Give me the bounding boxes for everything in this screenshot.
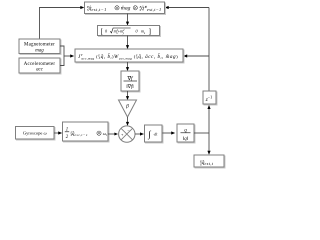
svg-text:‖q‖: ‖q‖	[183, 137, 189, 142]
wire: gyroscope into quaternion rate block B5	[54, 132, 61, 134]
block B7: quaternion normalization q over ||q||	[177, 124, 195, 143]
svg-text:Accelerometer: Accelerometer	[24, 62, 56, 67]
svg-text:Gyroscope ω: Gyroscope ω	[23, 131, 47, 136]
wire: magnetometer output up and right into rotation block B1	[40, 8, 83, 40]
wire: B4 down to beta gain	[127, 91, 129, 99]
block: accelerometer input	[19, 58, 61, 74]
svg-text:β: β	[125, 103, 129, 109]
svg-text:m̂ag: m̂ag	[121, 6, 131, 12]
wire: B3 down to gradient normalization B4	[127, 62, 129, 70]
block B4: normalized gradient (del f over ||del f||)	[121, 71, 140, 92]
svg-text:Magnetometer: Magnetometer	[24, 43, 55, 48]
block B3: gradient objective J^T(q,b) W(q,acc,b,mag)	[75, 49, 184, 63]
wire: sensor bus joining magnetometer and accelerometer into B3	[60, 46, 73, 66]
block B2: magnetic reference vector [0 sqrt(mx2+my2) 0 mz]	[98, 26, 161, 37]
node: summing junction circle with cross (+ gyro path, - gradient path)	[119, 126, 135, 142]
block B5: quaternion rate 1/2 q (x) omega	[63, 122, 110, 142]
block: gyroscope input	[16, 127, 56, 141]
block: magnetometer input	[19, 39, 61, 55]
svg-text:]: ]	[149, 28, 151, 36]
wire: integrator to normalization block B7	[163, 132, 174, 134]
wire: feedback line from delay block to B1 and to objective block B3	[167, 8, 210, 134]
svg-text:ESq̂est,t: ESq̂est,t	[199, 159, 214, 167]
block B6: integrator (integral dt)	[145, 125, 164, 143]
block: unit delay z^-1	[203, 91, 217, 105]
svg-text:mag: mag	[35, 48, 44, 53]
wire: B2 down into objective block B3	[127, 36, 129, 48]
gain: beta triangle	[119, 100, 137, 117]
wire: beta gain down to summing junction	[127, 117, 129, 124]
wire: B1 down to B2	[127, 14, 129, 25]
wire: normalization output to feedback node	[194, 132, 209, 134]
wire: B5 into summing junction	[108, 133, 115, 135]
svg-text:‖∇f‖: ‖∇f‖	[126, 84, 134, 90]
svg-text:acc: acc	[36, 68, 44, 73]
block: estimated orientation output q_est,t	[194, 155, 225, 168]
block B1: quaternion rotation of magnetometer measurement	[85, 2, 166, 15]
wire: feedback node down into output block	[208, 133, 210, 153]
wire: summing junction to integrator B6	[135, 133, 142, 135]
